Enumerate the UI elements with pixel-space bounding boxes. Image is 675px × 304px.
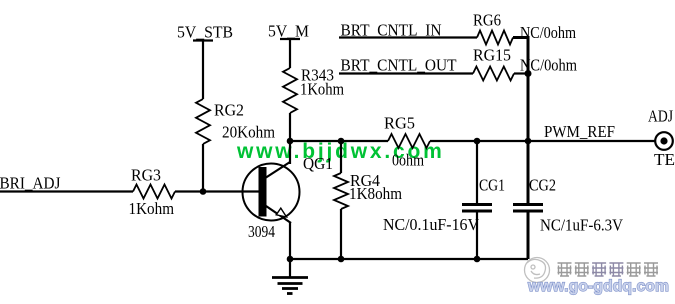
resistor RG5 bbox=[388, 134, 430, 148]
wire 5V_STB to RG2 bbox=[202, 41, 204, 100]
capacitor CG1 bbox=[462, 205, 492, 212]
junction RG15 net bbox=[525, 70, 532, 77]
resistor RG4 bbox=[334, 173, 348, 209]
wire ground rail bbox=[290, 258, 528, 260]
svg-text:RG2: RG2 bbox=[214, 101, 244, 120]
junction PWM node bbox=[525, 138, 532, 145]
watermark text air-conditioner lcd repair bbox=[558, 263, 659, 276]
svg-text:TE: TE bbox=[654, 150, 675, 169]
wire BRI_ADJ to RG3 bbox=[0, 190, 133, 192]
capacitor CG2 bbox=[513, 205, 543, 212]
resistor RG6 bbox=[477, 31, 513, 45]
ground bbox=[272, 259, 308, 294]
wire BRT_CNTL_IN to RG6 bbox=[339, 36, 477, 38]
wire RG6 to vertical net bbox=[513, 38, 528, 74]
wire RG4 to ground rail bbox=[340, 209, 342, 259]
svg-text:CG2: CG2 bbox=[529, 176, 556, 195]
svg-text:CG1: CG1 bbox=[479, 176, 505, 195]
svg-text:5V_M: 5V_M bbox=[268, 22, 309, 41]
wire PWM_REF to connector bbox=[528, 140, 655, 142]
junction node B bbox=[287, 138, 294, 145]
resistor RG2 bbox=[196, 99, 210, 144]
port bar 5V_STB bbox=[193, 39, 213, 41]
wire node C to RG4 bbox=[340, 141, 342, 173]
connector pin ADJ inner dot bbox=[660, 137, 667, 144]
watermark logo bbox=[525, 258, 550, 283]
svg-text:RG5: RG5 bbox=[384, 114, 415, 133]
wire BRT_CNTL_OUT to RG15 bbox=[339, 72, 473, 74]
port bar 5V_M bbox=[280, 38, 300, 40]
svg-text:5V_STB: 5V_STB bbox=[177, 23, 233, 42]
junction RG4 rail bbox=[338, 256, 345, 263]
svg-text:NC/1uF-6.3V: NC/1uF-6.3V bbox=[540, 216, 624, 235]
svg-text:RG3: RG3 bbox=[131, 166, 161, 185]
junction node A bbox=[200, 188, 207, 195]
wire 5V_M to R343 bbox=[289, 39, 291, 68]
wire RG2 to node A bbox=[202, 144, 204, 192]
junction CG1 rail bbox=[474, 256, 481, 263]
svg-text:www.go-gddq.com: www.go-gddq.com bbox=[527, 278, 669, 295]
resistor R343 bbox=[283, 68, 297, 113]
svg-text:RG15: RG15 bbox=[473, 46, 511, 65]
svg-text:1K8ohm: 1K8ohm bbox=[349, 184, 402, 203]
wire node B to node C bbox=[290, 140, 341, 142]
wire CG1 bottom lead bbox=[476, 211, 478, 259]
wire collector to node B bbox=[289, 141, 291, 164]
svg-text:3094: 3094 bbox=[248, 222, 275, 241]
svg-text:BRT_CNTL_OUT: BRT_CNTL_OUT bbox=[341, 56, 458, 75]
svg-text:PWM_REF: PWM_REF bbox=[544, 122, 615, 141]
junction CG1 top bbox=[474, 138, 481, 145]
svg-text:ADJ: ADJ bbox=[648, 107, 673, 126]
svg-text:BRI_ADJ: BRI_ADJ bbox=[0, 174, 61, 193]
resistor RG15 bbox=[473, 67, 514, 81]
wire emitter to ground rail bbox=[289, 222, 291, 259]
svg-text:NC/0.1uF-16V: NC/0.1uF-16V bbox=[383, 215, 480, 234]
svg-text:0ohm: 0ohm bbox=[392, 151, 424, 170]
svg-text:20Kohm: 20Kohm bbox=[222, 123, 275, 142]
junction emitter rail bbox=[287, 256, 294, 263]
wire node C to RG5 bbox=[341, 140, 388, 142]
connector pin ADJ outer ring bbox=[655, 132, 673, 150]
wire CG1 top lead bbox=[476, 141, 478, 204]
wire R343 to node B bbox=[289, 113, 291, 141]
wire CG2 top lead bbox=[527, 141, 530, 204]
svg-text:1Kohm: 1Kohm bbox=[129, 199, 175, 218]
svg-text:QG1: QG1 bbox=[303, 154, 333, 173]
wire vertical net to PWM node bbox=[527, 74, 530, 142]
wire RG3 to base bbox=[175, 190, 259, 192]
svg-text:RG6: RG6 bbox=[473, 11, 501, 30]
wire CG2 bottom lead bbox=[527, 211, 530, 259]
svg-text:1Kohm: 1Kohm bbox=[300, 80, 344, 99]
transistor QG1 bbox=[243, 162, 300, 223]
resistor RG3 bbox=[133, 185, 175, 199]
wire RG5 to PWM node bbox=[430, 140, 528, 142]
wire RG15 to vertical net bbox=[514, 72, 528, 74]
junction node C bbox=[338, 138, 345, 145]
